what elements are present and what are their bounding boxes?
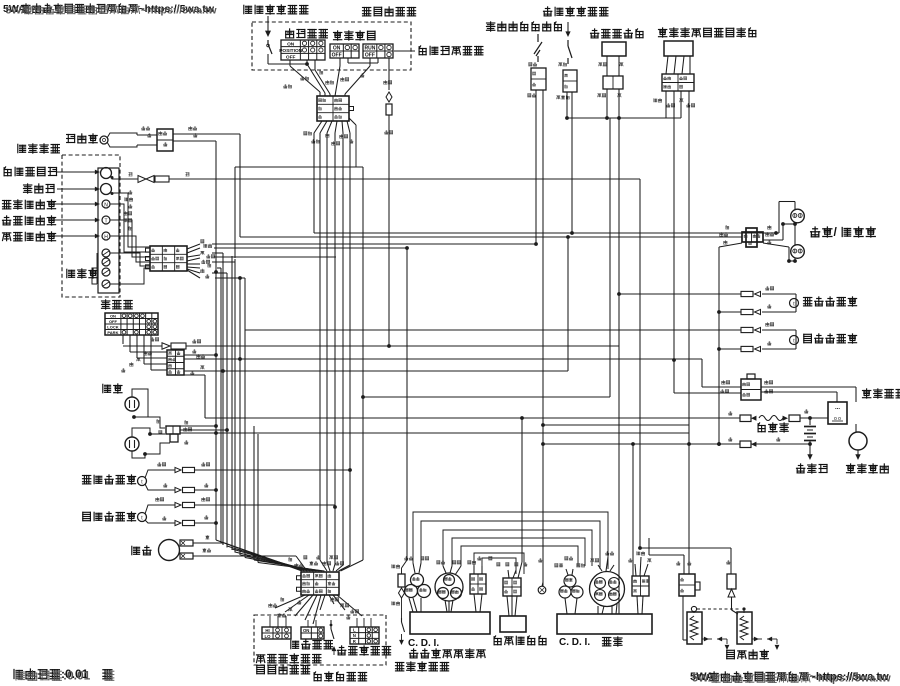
spark plug resistor <box>727 560 731 564</box>
wire green y244 <box>212 243 536 245</box>
regulator box <box>500 616 526 632</box>
svg-text:HI: HI <box>265 628 269 633</box>
stator wires up <box>443 566 446 573</box>
right rear turn wire top <box>619 293 741 295</box>
wires start button to connector A <box>339 58 341 66</box>
wires kill switch to connector A <box>369 58 371 66</box>
svg-text:H: H <box>104 235 108 241</box>
meter light lamps <box>102 249 110 257</box>
turn indicator lamp <box>102 216 110 224</box>
label engine kill switch <box>394 50 415 52</box>
pilot lamp <box>100 136 108 144</box>
left front turn signal lamp <box>138 513 147 522</box>
wire orange y253 corner <box>212 252 223 254</box>
label main switch <box>102 300 133 309</box>
starting cutoff relay box <box>664 41 693 56</box>
label right handlebar switch <box>363 7 416 16</box>
generator pickup wires <box>413 563 415 573</box>
wire yellow y268 <box>217 267 221 269</box>
black-white wire with inline diode <box>151 337 159 341</box>
watermark top-left <box>3 3 215 15</box>
wire blue y273 <box>212 272 227 274</box>
brown long wire y371 <box>184 370 568 372</box>
watermark bottom-right <box>690 671 889 683</box>
label meter lights <box>67 269 97 278</box>
label horn switch <box>291 640 333 649</box>
red long wire y418 <box>205 417 740 419</box>
meter inner box <box>98 168 119 293</box>
starter motor ground arrow <box>857 450 859 455</box>
svg-text:OFF: OFF <box>109 319 118 324</box>
relay area junction wire y118 <box>567 117 681 119</box>
svg-text:LO: LO <box>265 634 272 639</box>
starter switch loop wires <box>761 386 856 388</box>
svg-text:ON: ON <box>333 46 341 52</box>
label lighting switch <box>286 29 328 38</box>
left rear turn wires <box>673 329 741 331</box>
label dimmer switch <box>257 654 321 663</box>
generator nested harness 2 <box>421 521 600 569</box>
svg-text:ON: ON <box>287 41 295 47</box>
horn wires <box>193 542 223 544</box>
label turn signal switch <box>338 646 391 655</box>
headlight connector D <box>134 417 165 428</box>
label right front turn signal <box>83 475 136 484</box>
neutral switch wire from meter <box>402 560 408 568</box>
wire y425 from black bus to relay vertical <box>543 424 689 426</box>
stator nested harness 5 <box>461 546 578 566</box>
svg-text:LOCK: LOCK <box>107 324 118 329</box>
svg-text:~https://5wa.tw: ~https://5wa.tw <box>812 673 892 685</box>
svg-text:ON: ON <box>303 628 309 633</box>
svg-text:5WA: 5WA <box>6 4 29 16</box>
tail connector slant wire to black bus <box>719 243 742 247</box>
horn body <box>159 540 180 561</box>
rear brake switch connector <box>563 70 577 92</box>
right rear turn lamp <box>790 299 799 308</box>
neutral switch inline connector <box>398 574 405 587</box>
main switch table <box>105 313 158 335</box>
tail light loop wire 1 <box>763 232 779 234</box>
connector F nested harness 6 <box>474 553 524 574</box>
ignition coil 1 feed <box>682 596 684 640</box>
battery ground <box>808 442 812 446</box>
label clutch switch <box>314 672 367 681</box>
connector C main switch harness <box>167 350 184 375</box>
svg-text:C. D. I.: C. D. I. <box>559 637 590 648</box>
svg-text:RUN: RUN <box>364 46 375 52</box>
label fuel gauge <box>24 184 55 193</box>
wire x536 green corner <box>535 243 537 245</box>
generator wire labels <box>405 556 413 560</box>
generator stator circle <box>435 573 463 601</box>
bus corner long wire to tail light <box>314 232 776 234</box>
right rear turn bullets <box>741 291 753 296</box>
black bus drop to CDI connector <box>631 442 635 446</box>
tail connector J cross shaped <box>726 225 729 229</box>
orange wire staircase to ignition connector <box>648 538 650 555</box>
wires right of connector C <box>193 349 197 353</box>
left cluster verticals lower <box>231 256 233 550</box>
CDI wire labels <box>555 563 563 567</box>
bus bends into connector E <box>320 560 327 571</box>
connector F nested harness 7 <box>482 558 516 574</box>
headlight lamp hi <box>125 397 139 411</box>
label turn indicator <box>3 216 56 225</box>
wire labels above connector E <box>289 557 292 561</box>
wire y397 corner <box>363 396 610 398</box>
connector E left handle harness <box>301 572 339 595</box>
label left handlebar switch <box>257 665 310 674</box>
wire skyblue y248 <box>214 247 407 249</box>
wires fan below connector E <box>275 595 305 608</box>
watermark bottom-left <box>14 667 112 681</box>
CDI pickup circles <box>564 575 576 587</box>
start button table <box>330 44 359 58</box>
label horn <box>132 546 151 555</box>
svg-text:N: N <box>353 633 356 638</box>
coil2 ground arrows <box>752 638 762 640</box>
bullet connectors left front <box>175 502 181 507</box>
fuel level sensor <box>537 34 539 42</box>
wires below main switch <box>122 335 124 344</box>
label rectifier regulator <box>494 636 546 645</box>
label ignition coil <box>727 650 769 659</box>
generator nested harness 1 <box>413 512 608 569</box>
label turn flasher <box>591 29 644 38</box>
left rear turn lamp <box>790 336 799 345</box>
headlight wires right <box>180 425 216 427</box>
label rear brake light switch <box>544 7 608 16</box>
gray wire inline connector <box>138 176 146 183</box>
label starting circuit cutoff relay <box>659 28 756 37</box>
right front turn signal lamp <box>138 477 147 486</box>
fuel sensor wires down <box>535 90 537 244</box>
svg-text:PARK: PARK <box>107 330 118 335</box>
label front brake light switch <box>244 5 308 14</box>
high beam indicator lamp <box>102 232 110 240</box>
left front turn wires <box>145 505 175 514</box>
label battery <box>797 464 828 473</box>
wire x 522 to regulator <box>513 562 522 574</box>
clutch switch <box>330 620 332 629</box>
CDI main circle <box>590 572 625 607</box>
flasher connector <box>603 76 623 89</box>
generator box <box>410 612 490 634</box>
stator nested harness 3 <box>443 530 592 566</box>
CDI connector H <box>629 558 633 562</box>
ground circle <box>538 586 546 594</box>
CDI box <box>557 614 652 634</box>
tail light loop wire 2 <box>763 239 783 241</box>
central bus wires from connector A <box>313 133 315 233</box>
pilot lamp wires right <box>189 126 197 130</box>
regulator pins down <box>507 596 509 616</box>
left rear turn loop <box>762 329 796 331</box>
coil1 ground arrows <box>702 638 712 640</box>
battery <box>809 418 811 425</box>
pilot lamp wire loop <box>107 133 137 138</box>
wire x228 down <box>227 429 229 431</box>
svg-text:OFF: OFF <box>286 55 296 61</box>
dashed box meter assembly <box>62 155 120 297</box>
label meter assembly <box>18 144 60 153</box>
dashed box right handlebar switch assy <box>252 22 411 70</box>
horn terminals <box>180 540 193 546</box>
relay pin wires down <box>665 91 667 118</box>
dashed box left handlebar switch assy <box>254 615 386 665</box>
label headlight <box>103 384 122 393</box>
black-white long wire y346 <box>186 345 619 347</box>
pilot lamp connector <box>157 129 173 151</box>
label start button <box>334 31 376 40</box>
starter relay box <box>828 402 847 424</box>
label left rear turn signal <box>804 334 857 343</box>
dimmer switch table <box>262 627 291 639</box>
svg-text:N: N <box>104 203 108 209</box>
stator nested harness 4 <box>452 538 585 566</box>
neutral switch ground arrow <box>401 634 403 640</box>
rear brake light switch <box>567 22 569 33</box>
svg-text:POSITION: POSITION <box>279 48 302 54</box>
starter switch connector K <box>722 380 730 384</box>
regulator connector G <box>503 578 521 596</box>
svg-text:ON: ON <box>110 313 116 318</box>
gray wire long run to CDI area <box>169 178 640 180</box>
U link start button to kill switch <box>347 58 349 63</box>
kill switch wire with inline fuse <box>388 58 390 90</box>
tail light wires from left <box>240 236 742 238</box>
right rear turn loop <box>762 293 796 295</box>
meter lamp bus wire <box>96 253 98 284</box>
tail brake lamp upper <box>791 209 805 223</box>
left rear turn bullets <box>741 327 753 332</box>
fuse assembly <box>729 411 733 415</box>
svg-text:...: ... <box>835 405 840 411</box>
label fuel level sensor <box>487 22 562 31</box>
lighting switch table <box>281 40 325 60</box>
fuel sensor connector <box>531 68 546 90</box>
label three phase AC generator <box>410 649 486 658</box>
neutral indicator lamp <box>102 200 110 208</box>
svg-text:5WA: 5WA <box>692 673 716 685</box>
label neutral indicator <box>3 200 56 209</box>
label tail brake light <box>811 225 876 239</box>
tail light loop wire 3 <box>763 243 789 247</box>
headlight wire loop <box>132 389 148 417</box>
label left front turn signal <box>83 512 136 521</box>
red wire to fuse line <box>184 374 205 376</box>
wire connector A to x363 corner <box>349 118 356 125</box>
generator connector F <box>478 556 482 560</box>
tachometer gray wire <box>112 178 147 180</box>
rear turn vertical bus x719 <box>718 247 720 444</box>
fuel gauge <box>101 184 112 195</box>
turn signal switch table <box>350 627 379 644</box>
meter wires to connector B <box>129 190 133 194</box>
label right rear turn signal <box>804 297 857 306</box>
bullet connectors right front <box>175 467 181 472</box>
generator pickup coil circles <box>411 574 424 587</box>
right front turn wires <box>145 470 175 478</box>
starter red-white wire y393 <box>674 392 741 394</box>
wire y257 <box>214 256 336 258</box>
headlight lamp lo <box>125 437 139 451</box>
ignition coil 2 <box>737 612 752 644</box>
tail brake lamp lower <box>791 245 805 259</box>
svg-text::0.01: :0.01 <box>63 669 91 683</box>
wire brake switch joins lighting wire <box>267 54 269 64</box>
ground point wire <box>539 558 543 562</box>
engine kill switch table <box>363 44 393 58</box>
neutral switch blade <box>401 618 403 622</box>
svg-text:OFF: OFF <box>365 53 375 59</box>
wires fan below connector A <box>314 121 322 133</box>
wire black y278 <box>215 277 245 279</box>
arrow from front brake label <box>267 16 269 33</box>
label pilot lamp <box>67 134 98 143</box>
label neutral lamp switch <box>396 662 449 671</box>
clutch switch arrow <box>333 649 335 655</box>
svg-text:R: R <box>353 639 356 644</box>
svg-text:T: T <box>104 219 107 225</box>
wires fan right of connector B <box>187 244 200 249</box>
ignition connector I <box>677 561 681 565</box>
cutoff relay connector <box>662 74 694 91</box>
starter switch wire blue-white y387 <box>701 359 703 387</box>
wire orange-green y262 corner <box>212 261 235 263</box>
tachometer <box>101 168 112 179</box>
junction ignition feed <box>638 546 642 550</box>
generator pins to box <box>413 598 417 612</box>
flasher box <box>602 42 626 56</box>
svg-text:~https://5wa.tw: ~https://5wa.tw <box>141 4 217 16</box>
label fuse <box>758 423 788 432</box>
starter motor wire <box>857 424 859 432</box>
label high beam indicator <box>3 232 56 241</box>
regulator wires <box>497 563 500 566</box>
label starter switch <box>863 389 900 398</box>
ignition coil 1 <box>687 612 702 644</box>
bundle diagonals into connector E <box>216 540 302 571</box>
svg-text:OFF: OFF <box>332 53 342 59</box>
label starter motor <box>847 464 889 473</box>
black wire to battery negative y444 <box>543 443 740 445</box>
svg-text:C. D. I.: C. D. I. <box>408 638 439 649</box>
wires into connector C <box>144 351 152 355</box>
wires lighting switch to connector A <box>289 60 291 66</box>
horn switch table <box>301 627 324 639</box>
hv dashed link <box>697 608 741 610</box>
label tachometer <box>4 167 56 176</box>
starter motor <box>849 432 867 450</box>
connector A main harness <box>317 96 349 121</box>
front brake light switch <box>267 40 269 44</box>
connector B meter harness <box>150 246 187 271</box>
